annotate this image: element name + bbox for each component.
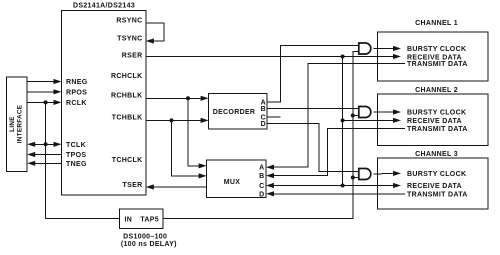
svg-text:RPOS: RPOS <box>66 89 87 96</box>
svg-text:(100 ns DELAY): (100 ns DELAY) <box>121 241 177 248</box>
svg-text:D: D <box>259 191 264 198</box>
svg-text:TRANSMIT DATA: TRANSMIT DATA <box>407 126 468 133</box>
label LINE INTERFACE <box>9 105 23 144</box>
arrow into TSER <box>146 184 154 189</box>
node delayed clock to gate3 <box>351 176 355 180</box>
decoder U2 <box>209 94 268 129</box>
arrow TNEG into line interface <box>27 161 35 166</box>
svg-text:RCHCLK: RCHCLK <box>111 73 142 80</box>
svg-text:TAP5: TAP5 <box>140 216 159 223</box>
arrow channel3 bursty clock <box>393 171 401 176</box>
delay line U4 DS1000-100 <box>120 209 164 229</box>
svg-text:TPOS: TPOS <box>66 152 86 159</box>
svg-text:A: A <box>259 165 264 172</box>
wire decoder A to gate1 <box>267 46 359 102</box>
svg-text:CHANNEL 3: CHANNEL 3 <box>415 151 458 158</box>
wire TCLK <box>34 143 54 145</box>
svg-text:BURSTY CLOCK: BURSTY CLOCK <box>407 171 466 178</box>
and gate G2 <box>359 107 371 118</box>
arrow TPOS into line interface <box>27 152 35 157</box>
svg-text:BURSTY CLOCK: BURSTY CLOCK <box>407 110 466 117</box>
arrow RCLK into chip <box>54 100 62 105</box>
svg-text:TRANSMIT DATA: TRANSMIT DATA <box>407 61 468 68</box>
wire channel3 transmit data to mux D <box>274 193 405 195</box>
svg-text:IN: IN <box>125 216 133 223</box>
node TCLK branch <box>44 142 48 146</box>
svg-text:TCHBLK: TCHBLK <box>112 115 143 122</box>
svg-text:B: B <box>261 106 266 113</box>
channel 3 box <box>378 158 489 209</box>
svg-text:RSYNC: RSYNC <box>116 17 142 24</box>
svg-text:C: C <box>259 183 264 190</box>
svg-text:B: B <box>259 173 264 180</box>
wire RCHBLK riser to mux select <box>188 98 199 166</box>
arrow channel1 bursty clock <box>393 46 401 51</box>
svg-text:LINE: LINE <box>9 116 16 132</box>
arrow channel2 bursty clock <box>393 109 401 114</box>
node channel3 receive branch <box>341 184 345 188</box>
wire RSYNC to TSYNC loop <box>146 23 164 41</box>
wire channel2 transmit data to mux B <box>274 129 405 176</box>
svg-text:RECEIVE DATA: RECEIVE DATA <box>407 183 462 190</box>
wire delayed clock into gate3 <box>353 177 359 179</box>
wire RCHBLK to decoder <box>146 97 201 99</box>
arrow into mux A <box>266 165 274 170</box>
node delayed clock to gate2 <box>351 114 355 118</box>
channel 1 box <box>378 32 489 81</box>
wire gate3 output <box>373 172 393 175</box>
wire TCHBLK riser to mux select <box>172 120 200 175</box>
wire RCLK riser to delay line input <box>46 102 120 218</box>
node TCHBLK branch <box>170 118 174 122</box>
svg-text:DS2141A/DS2143: DS2141A/DS2143 <box>73 2 135 9</box>
arrow into channel2 receive <box>393 118 401 123</box>
node channel2 receive branch <box>341 118 345 122</box>
channel 2 box <box>378 94 489 146</box>
svg-text:TRANSMIT DATA: TRANSMIT DATA <box>407 191 468 198</box>
arrow into mux lower select <box>199 173 207 178</box>
wire TPOS <box>34 154 62 156</box>
svg-text:TSYNC: TSYNC <box>117 36 142 43</box>
wire RCLK <box>27 101 54 103</box>
wire mux output to TSER <box>153 186 207 188</box>
arrow RCHBLK into decoder <box>201 96 209 101</box>
svg-text:RECEIVE DATA: RECEIVE DATA <box>407 118 462 125</box>
wire RNEG <box>27 81 54 83</box>
arrow into mux B <box>266 173 274 178</box>
mux U3 <box>207 160 266 198</box>
arrow into mux D <box>266 191 274 196</box>
svg-text:RCLK: RCLK <box>66 100 87 107</box>
and gate G1 <box>359 43 371 54</box>
svg-text:RNEG: RNEG <box>66 79 88 86</box>
wire RSER loop to mux C and channel3 receive <box>274 185 394 187</box>
wire TAP5 output to gate clock riser <box>163 52 359 219</box>
arrow TCLK into chip <box>54 142 62 147</box>
wire TCHBLK to decoder <box>146 119 201 121</box>
wire decoder D to gate3 <box>267 124 359 172</box>
svg-text:TCLK: TCLK <box>66 142 86 149</box>
svg-text:CHANNEL 2: CHANNEL 2 <box>415 87 458 94</box>
arrow into TSYNC <box>146 38 154 43</box>
arrow into channel3 receive <box>393 183 401 188</box>
svg-text:CHANNEL 1: CHANNEL 1 <box>415 20 458 27</box>
wire delayed clock into gate2 <box>353 115 359 117</box>
arrow RPOS into chip <box>54 89 62 94</box>
svg-text:TCHCLK: TCHCLK <box>112 157 143 164</box>
and gate G3 <box>359 169 371 180</box>
wire RPOS <box>27 91 54 93</box>
svg-text:MUX: MUX <box>224 179 241 186</box>
arrow RNEG into chip <box>54 79 62 84</box>
node RSER branch <box>341 55 345 59</box>
svg-text:BURSTY CLOCK: BURSTY CLOCK <box>407 46 466 53</box>
arrow RSER into channel 1 receive <box>393 54 401 59</box>
svg-text:DS1000–100: DS1000–100 <box>123 234 167 241</box>
wire gate2 output <box>373 111 393 113</box>
wire channel1 transmit data to mux A <box>274 64 405 168</box>
wire decoder B to gate2 <box>267 108 359 110</box>
line interface box <box>7 77 28 171</box>
node RCLK branch <box>44 100 48 104</box>
node RCHBLK branch <box>186 96 190 100</box>
svg-text:TSER: TSER <box>123 182 143 189</box>
arrow TCHBLK into decoder <box>201 118 209 123</box>
svg-text:RSER: RSER <box>122 53 143 60</box>
wire TNEG <box>34 162 62 164</box>
svg-text:INTERFACE: INTERFACE <box>16 105 23 144</box>
arrow into mux C <box>266 183 274 188</box>
wire to channel2 receive <box>343 119 394 121</box>
arrow TCLK into line interface <box>27 142 35 147</box>
wire RSER riser <box>342 57 344 186</box>
svg-text:RCHBLK: RCHBLK <box>111 92 142 99</box>
IC U1 DS2141A/DS2143 <box>62 11 146 195</box>
wire decoder C stub <box>267 116 280 118</box>
svg-text:TNEG: TNEG <box>66 161 87 168</box>
wire RSER to channel1 receive data <box>146 56 394 58</box>
arrow into mux upper select <box>199 163 207 168</box>
wire gate1 output <box>373 48 393 50</box>
svg-text:DECORDER: DECORDER <box>213 109 256 116</box>
svg-text:D: D <box>261 121 266 128</box>
